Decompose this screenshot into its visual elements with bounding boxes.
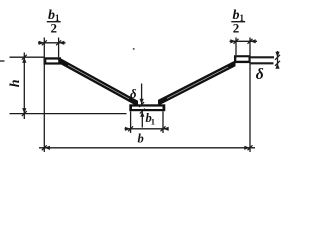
- svg-text:2: 2: [233, 21, 240, 36]
- svg-text:δ: δ: [130, 87, 137, 101]
- svg-text:b: b: [138, 132, 144, 146]
- svg-text:δ: δ: [256, 66, 264, 83]
- svg-text:1: 1: [151, 117, 155, 127]
- svg-text:h: h: [8, 79, 23, 87]
- svg-text:2: 2: [51, 21, 58, 36]
